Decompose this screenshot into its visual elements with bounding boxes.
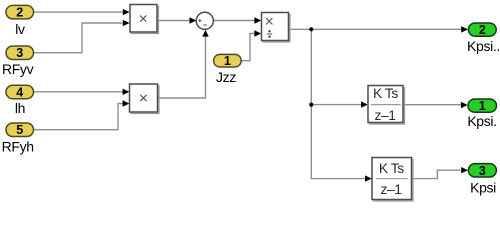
svg-text:1: 1: [479, 99, 486, 113]
svg-text:3: 3: [479, 164, 486, 178]
svg-text:1: 1: [224, 54, 231, 68]
svg-text:2: 2: [16, 6, 23, 20]
svg-text:lh: lh: [15, 100, 25, 116]
svg-text:4: 4: [16, 85, 23, 99]
svg-text:RFyh: RFyh: [2, 138, 34, 154]
svg-text:z–1: z–1: [381, 182, 402, 197]
svg-text:lv: lv: [15, 21, 25, 37]
svg-text:Kpsi..: Kpsi..: [467, 38, 500, 54]
svg-text:Kpsi: Kpsi: [470, 179, 496, 195]
svg-text:3: 3: [16, 46, 23, 60]
svg-text:RFyv: RFyv: [2, 61, 34, 77]
svg-text:5: 5: [16, 123, 23, 137]
svg-text:Kpsi.: Kpsi.: [467, 113, 496, 129]
svg-text:K Ts: K Ts: [373, 86, 398, 101]
svg-text:z–1: z–1: [375, 108, 396, 123]
svg-text:K Ts: K Ts: [379, 161, 404, 176]
svg-text:2: 2: [479, 23, 486, 37]
svg-text:Jzz: Jzz: [216, 69, 236, 85]
